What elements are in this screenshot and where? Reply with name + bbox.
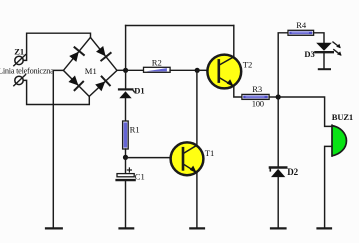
terminal Z1b — [14, 75, 26, 86]
transistor T1 — [171, 142, 204, 175]
ground (D3) — [319, 68, 330, 70]
resistor R2 — [144, 67, 171, 72]
wire: node C to T2 base — [197, 69, 207, 71]
wire: top rail — [126, 25, 234, 27]
svg-text:R1: R1 — [130, 124, 140, 134]
svg-text:R4: R4 — [296, 20, 307, 30]
ground (BUZ1) — [318, 227, 332, 229]
wire: bridge left corner to ground — [53, 70, 63, 227]
capacitor C1 — [117, 168, 135, 180]
wire: node A to R2 — [126, 69, 144, 71]
svg-text:100: 100 — [252, 98, 264, 108]
wire: D3 to ground — [323, 53, 325, 68]
diode D1 — [119, 89, 134, 98]
bridge rectifier M1 — [63, 37, 117, 96]
resistor R4 — [288, 30, 314, 35]
node A junction — [123, 68, 128, 73]
LED D3 — [315, 42, 341, 56]
svg-text:D2: D2 — [287, 167, 298, 177]
wire: C1 to ground — [125, 181, 127, 227]
wire: R2 to node C — [170, 69, 197, 71]
wire: T1 emitter to ground — [196, 173, 198, 228]
zener diode D2 — [270, 168, 286, 178]
wire: D1 to R1 — [125, 98, 127, 121]
wire: T2 emitter down to R3 — [234, 86, 242, 97]
wire: BUZ1 bottom terminal to ground — [325, 146, 332, 227]
wire: R1 to node B — [125, 149, 127, 157]
ground (C1) — [120, 227, 134, 229]
svg-text:D1: D1 — [134, 85, 144, 95]
svg-text:D3: D3 — [304, 49, 314, 59]
svg-text:T2: T2 — [243, 60, 253, 70]
svg-text:R2: R2 — [152, 57, 162, 67]
wire: node A up to top rail — [125, 26, 127, 71]
resistor R1 — [123, 121, 129, 149]
wire: top rail down to T2 collector — [233, 26, 235, 58]
wire: R3 to node D — [269, 96, 278, 98]
svg-text:Z1: Z1 — [14, 47, 24, 57]
wire: node B to C1 — [125, 157, 127, 173]
svg-text:BUZ1: BUZ1 — [332, 112, 353, 122]
buzzer BUZ1 — [332, 125, 346, 156]
resistor R3 — [242, 94, 269, 99]
wire: node D down to D2 — [277, 97, 279, 167]
svg-text:M1: M1 — [85, 66, 97, 76]
svg-text:R3: R3 — [252, 84, 262, 94]
wire: lower terminal Z1b to bridge bottom corner — [23, 80, 89, 104]
node B junction — [123, 155, 128, 160]
wire: T1 collector up to node C — [196, 70, 198, 144]
ground (T1) — [190, 227, 204, 229]
wire: upper terminal Z1a to bridge top corner — [23, 33, 90, 60]
node C junction — [195, 68, 200, 73]
node D junction — [276, 94, 281, 99]
terminal Z1a — [14, 55, 26, 66]
wire: R4 to LED D3 — [314, 33, 324, 43]
ground (D2) — [271, 227, 286, 229]
wire: node D up to R4 — [278, 33, 288, 97]
transistor T2 — [207, 55, 241, 89]
svg-text:Linia telefoniczna: Linia telefoniczna — [0, 67, 54, 76]
svg-text:T1: T1 — [205, 148, 215, 158]
wire: node A down to D1 — [125, 70, 127, 89]
wire: node B to T1 base — [126, 157, 171, 159]
svg-text:C1: C1 — [135, 172, 145, 182]
ground (bridge minus) — [46, 227, 62, 229]
wire: D2 to ground — [277, 177, 279, 228]
wire: bridge right corner to node A — [117, 69, 126, 71]
wire: node D to BUZ1 top terminal — [278, 97, 332, 126]
